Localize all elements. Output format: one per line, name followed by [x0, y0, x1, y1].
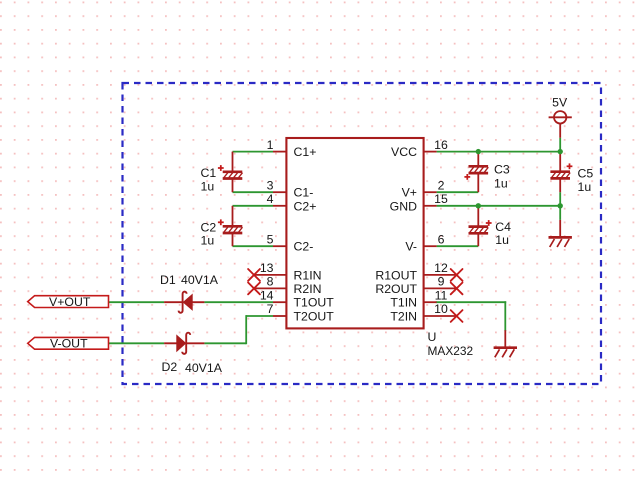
svg-text:V+: V+ — [402, 186, 417, 200]
C5 value 1u — [578, 180, 592, 194]
svg-text:4: 4 — [267, 192, 274, 206]
svg-text:D2: D2 — [162, 360, 178, 374]
svg-text:1u: 1u — [201, 234, 215, 248]
svg-text:2: 2 — [438, 178, 445, 192]
svg-text:5V: 5V — [552, 96, 568, 110]
pin name R2IN — [294, 282, 322, 296]
wire C5 bottom to ground — [559, 192, 561, 220]
wire vertical V-OUT riser — [245, 316, 247, 343]
svg-text:C1+: C1+ — [294, 145, 317, 159]
svg-text:11: 11 — [435, 288, 448, 302]
svg-text:8: 8 — [267, 275, 274, 289]
svg-text:12: 12 — [434, 261, 448, 275]
svg-text:R2IN: R2IN — [294, 282, 322, 296]
C1 value 1u — [201, 179, 215, 193]
pin 11 stub — [424, 301, 437, 303]
svg-text:1u: 1u — [494, 176, 508, 190]
svg-text:9: 9 — [438, 275, 445, 289]
svg-text:GND: GND — [390, 199, 417, 213]
wire D1 to pin14 — [204, 301, 273, 303]
D1 label — [160, 273, 176, 287]
svg-text:MAX232: MAX232 — [428, 344, 474, 358]
sheet border (dashed) — [123, 83, 602, 384]
pin name R1OUT — [375, 268, 417, 282]
capacitor C4 — [469, 206, 492, 246]
pin 3 number — [267, 178, 274, 192]
svg-text:V-OUT: V-OUT — [50, 337, 88, 351]
pin 14 stub — [273, 301, 286, 303]
pin 12 number — [434, 261, 448, 275]
capacitor C1 — [218, 152, 243, 193]
svg-text:C5: C5 — [578, 167, 594, 181]
capacitor C2 — [218, 206, 243, 246]
pin 1 number — [267, 138, 274, 152]
junction VCC/5V — [558, 149, 563, 154]
wire D2 right segment — [204, 342, 246, 344]
svg-text:5: 5 — [267, 232, 274, 246]
svg-text:7: 7 — [267, 302, 274, 316]
IC U MAX232 body — [286, 138, 423, 328]
pin 4 number — [267, 192, 274, 206]
pin name V- — [405, 240, 417, 254]
wire 5V to VCC rail — [559, 138, 561, 152]
pin 2 number — [438, 178, 445, 192]
svg-text:1u: 1u — [578, 180, 592, 194]
wire T1IN vertical to ground — [504, 302, 506, 330]
pin 11 number — [435, 288, 448, 302]
C4 label — [495, 220, 511, 234]
svg-text:10: 10 — [434, 302, 448, 316]
diode D2 — [164, 333, 204, 354]
C4 value 1u — [495, 233, 509, 247]
pin 1 stub — [273, 151, 286, 153]
wire pin4 to C2 top — [233, 205, 274, 207]
capacitor C3 — [464, 152, 488, 193]
wire pin6 to C4 — [437, 245, 479, 247]
pin 4 stub — [273, 205, 286, 207]
pin name C2- — [294, 240, 314, 254]
no-connect X pin 8 — [248, 283, 260, 295]
svg-text:V+OUT: V+OUT — [49, 295, 91, 309]
wire V+OUT to D1 — [109, 301, 165, 303]
svg-text:C3: C3 — [494, 163, 510, 177]
pin name T2IN — [390, 310, 417, 324]
pin 15 number — [434, 192, 448, 206]
pin name C2+ — [294, 199, 317, 213]
C3 value 1u — [494, 176, 508, 190]
svg-text:R1OUT: R1OUT — [375, 268, 417, 282]
junction VCC/C3 — [476, 149, 481, 154]
svg-text:1u: 1u — [495, 233, 509, 247]
pin 3 stub — [273, 191, 286, 193]
ground symbol (below C5) — [549, 220, 572, 247]
ground symbol (T1IN) — [494, 330, 517, 357]
pin 9 stub — [424, 287, 457, 289]
pin name T1IN — [390, 296, 417, 310]
IC reference U — [428, 330, 437, 344]
wire GND rail pin15 — [437, 205, 561, 207]
svg-text:VCC: VCC — [391, 145, 417, 159]
C3 label — [494, 163, 510, 177]
svg-text:D1: D1 — [160, 273, 176, 287]
no-connect X pin 12 — [451, 269, 463, 281]
hierarchical label V+OUT — [28, 295, 109, 309]
pin 8 number — [267, 275, 274, 289]
svg-text:3: 3 — [267, 178, 274, 192]
svg-text:R2OUT: R2OUT — [375, 282, 417, 296]
junction GND/C5 — [558, 203, 563, 208]
IC value MAX232 — [428, 344, 474, 358]
no-connect X pin 13 — [248, 269, 260, 281]
pin name T2OUT — [294, 310, 335, 324]
D1 value 40V1A — [181, 273, 219, 287]
pin 7 stub — [273, 315, 286, 317]
pin 2 stub — [424, 191, 437, 193]
no-connect X pin 10 — [451, 310, 463, 322]
svg-text:15: 15 — [434, 192, 448, 206]
pin 9 number — [438, 275, 445, 289]
hierarchical label V-OUT — [28, 337, 109, 351]
svg-text:R1IN: R1IN — [294, 268, 322, 282]
svg-text:C1-: C1- — [294, 186, 314, 200]
pin 13 stub — [254, 274, 286, 276]
svg-text:C1: C1 — [201, 166, 217, 180]
svg-text:C2+: C2+ — [294, 199, 317, 213]
capacitor C5 — [550, 152, 572, 193]
pin 7 number — [267, 302, 274, 316]
diode D1 — [164, 292, 204, 313]
svg-text:T2IN: T2IN — [390, 310, 417, 324]
wire pin3 to C1 bottom — [233, 191, 274, 193]
D2 label — [162, 360, 178, 374]
pin name R2OUT — [375, 282, 417, 296]
pin 10 stub — [424, 315, 457, 317]
pin 6 number — [438, 232, 445, 246]
svg-text:6: 6 — [438, 232, 445, 246]
wire T1IN horizontal — [437, 301, 506, 303]
power symbol 5V — [549, 111, 572, 138]
pin 10 number — [434, 302, 448, 316]
svg-text:U: U — [428, 330, 437, 344]
pin name C1- — [294, 186, 314, 200]
pin 8 stub — [254, 287, 286, 289]
svg-text:T1IN: T1IN — [390, 296, 417, 310]
junction GND/C4 — [476, 203, 481, 208]
wire pin2 to C3 — [437, 191, 479, 193]
5V label — [552, 96, 568, 110]
svg-text:V-: V- — [405, 240, 417, 254]
svg-text:C2-: C2- — [294, 240, 314, 254]
pin name R1IN — [294, 268, 322, 282]
wire riser to pin7 — [246, 315, 273, 317]
D2 value 40V1A — [185, 361, 223, 375]
svg-text:40V1A: 40V1A — [181, 273, 219, 287]
wire V-OUT to D2 — [109, 342, 165, 344]
svg-text:1u: 1u — [201, 179, 215, 193]
pin name T1OUT — [294, 296, 335, 310]
no-connect X pin 9 — [451, 283, 463, 295]
pin 15 stub — [424, 205, 437, 207]
svg-text:C2: C2 — [201, 220, 217, 234]
svg-text:14: 14 — [260, 288, 274, 302]
svg-text:T1OUT: T1OUT — [294, 296, 335, 310]
svg-text:40V1A: 40V1A — [185, 361, 223, 375]
pin 6 stub — [424, 245, 437, 247]
svg-text:T2OUT: T2OUT — [294, 310, 335, 324]
C2 label — [201, 220, 217, 234]
svg-text:16: 16 — [434, 138, 448, 152]
pin name V+ — [402, 186, 417, 200]
pin 13 number — [260, 261, 274, 275]
pin 14 number — [260, 288, 274, 302]
pin name VCC — [391, 145, 417, 159]
pin 16 number — [434, 138, 448, 152]
pin 5 number — [267, 232, 274, 246]
C1 label — [201, 166, 217, 180]
pin name GND — [390, 199, 417, 213]
pin 16 stub — [424, 151, 437, 153]
pin 5 stub — [273, 245, 286, 247]
svg-text:1: 1 — [267, 138, 274, 152]
pin name C1+ — [294, 145, 317, 159]
wire pin5 to C2 bottom — [233, 245, 274, 247]
C2 value 1u — [201, 234, 215, 248]
wire pin1 to C1 top — [233, 151, 274, 153]
C5 label — [578, 167, 594, 181]
pin 12 stub — [424, 274, 457, 276]
svg-text:13: 13 — [260, 261, 274, 275]
wire VCC rail pin16 to 5V — [437, 151, 561, 153]
